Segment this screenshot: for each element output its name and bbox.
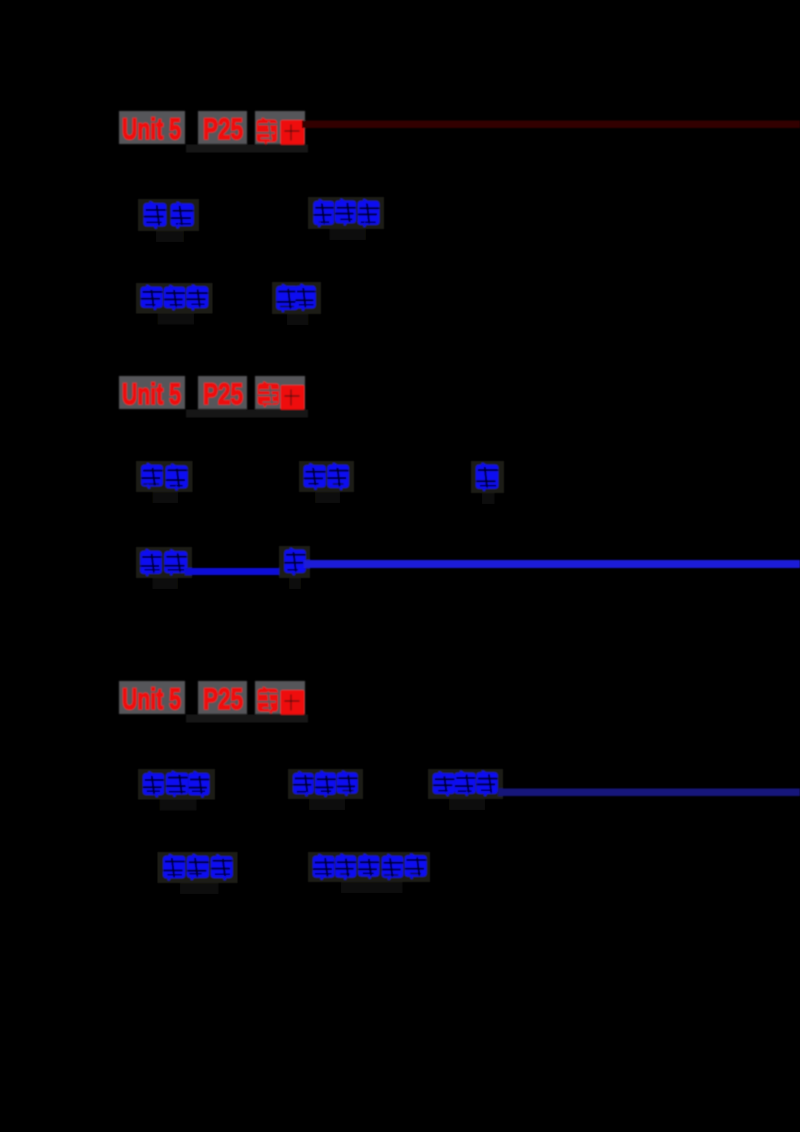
s3 row1 word1 [138,769,215,800]
s2 row2 word2 [279,546,310,578]
s2 row1 word1 [136,461,192,492]
svg-text:Unit 5: Unit 5 [122,683,181,716]
svg-text:P25: P25 [203,683,243,716]
s2 row1 word3 [471,461,504,493]
s3 row2 word1 [158,852,238,883]
svg-text:P25: P25 [203,113,243,146]
section 1 heading [119,111,185,144]
s3 line [498,789,800,797]
red rule line [302,121,800,129]
s2 row2 word1 [136,547,192,578]
s1 row2 word2 [272,282,321,314]
s2 underline [185,568,280,575]
s3 row1 word3 [428,769,503,799]
s1 row2 word1 [136,283,213,314]
s3 row1 word2 [288,769,363,799]
svg-text:Unit 5: Unit 5 [122,113,181,146]
section 3 heading [119,681,185,714]
svg-text:Unit 5: Unit 5 [122,378,181,411]
svg-text:P25: P25 [203,378,243,411]
s2 row1 word2 [299,461,354,492]
s1 row1 word1 [138,199,199,231]
s2 long line [304,560,800,568]
s3 row2 word2 [308,852,430,882]
s1 row1 word2 [308,197,384,229]
section 2 heading [119,376,185,409]
